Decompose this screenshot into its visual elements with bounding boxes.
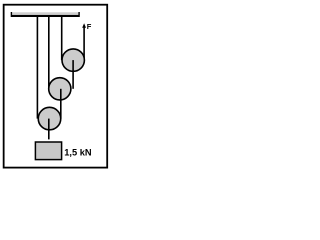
svg-text:1,5 kN: 1,5 kN — [64, 148, 92, 158]
svg-text:F: F — [87, 22, 92, 31]
